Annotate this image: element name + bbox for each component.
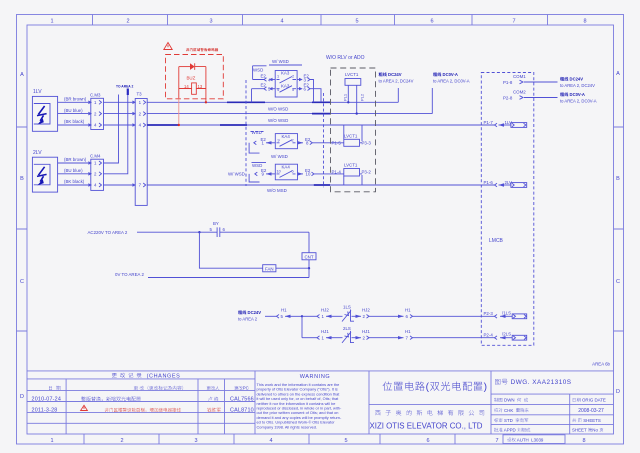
svg-text:KA4: KA4 xyxy=(282,165,291,170)
svg-text:W/ WSD: W/ WSD xyxy=(271,154,288,159)
option box W/WSD (blue dashed) xyxy=(246,80,324,187)
terminal E2-9 (KA4 lower left) xyxy=(228,163,275,183)
svg-text:P3-3: P3-3 xyxy=(362,141,372,146)
wire 1LV blue xyxy=(58,108,89,114)
terminal E2-4 (left, WSD bracket) xyxy=(253,66,276,83)
svg-text:1: 1 xyxy=(50,19,53,25)
terminal H1-7 xyxy=(398,329,495,341)
svg-text:6: 6 xyxy=(426,438,429,444)
transformer LVCT1 (middle) xyxy=(332,125,372,146)
svg-text:DWN: DWN xyxy=(503,398,517,403)
svg-text:HJ2: HJ2 xyxy=(321,308,329,313)
svg-text:BY: BY xyxy=(213,221,219,226)
zone letters right xyxy=(616,71,620,395)
zone letters left xyxy=(20,72,24,400)
svg-text:5: 5 xyxy=(344,438,347,444)
company name CN xyxy=(375,410,484,416)
relay contact KA3 (first) xyxy=(275,71,297,98)
wire 1LV brown xyxy=(58,97,89,103)
svg-text:1: 1 xyxy=(50,438,53,444)
svg-text:/1LS: /1LS xyxy=(502,310,511,315)
svg-text:7: 7 xyxy=(495,438,498,444)
svg-text:2008-03-27: 2008-03-27 xyxy=(578,408,604,414)
junction BUZ-line3 xyxy=(178,124,180,126)
label DC24V to AREA 2 (H1 row) xyxy=(238,310,261,322)
svg-text:COM1: COM1 xyxy=(513,74,526,79)
terminal H1-6 xyxy=(398,308,495,320)
relay contact KA4 (upper) xyxy=(275,134,297,149)
svg-text:2010-07-24: 2010-07-24 xyxy=(32,397,62,403)
unit LMCB (blue dashed box) xyxy=(481,73,534,346)
svg-text:9: 9 xyxy=(278,139,280,143)
svg-text:LVCT1: LVCT1 xyxy=(345,72,359,77)
svg-text:P2-4: P2-4 xyxy=(484,332,494,337)
wire C.M3 to T3 pin2 xyxy=(104,113,133,115)
label buzzer option (red) xyxy=(186,48,218,51)
terminal HJ2-2 xyxy=(356,308,399,320)
terminal block T3 xyxy=(132,92,147,206)
svg-text:4: 4 xyxy=(280,19,283,25)
switch 2LS (NC) xyxy=(341,326,356,343)
svg-text:(BK black): (BK black) xyxy=(64,119,85,124)
svg-text:SHEETS: SHEETS xyxy=(582,418,601,423)
wire BUZ left leg to line3 xyxy=(178,67,180,99)
svg-text:D: D xyxy=(616,389,620,395)
wire bus line3 xyxy=(147,124,494,126)
option box LVCT (gray dashed) xyxy=(331,68,376,192)
svg-text:PC: PC xyxy=(243,386,249,391)
connector C.M3 xyxy=(88,93,103,130)
svg-text:8: 8 xyxy=(582,438,585,444)
svg-text:P2-3: P2-3 xyxy=(484,311,494,316)
svg-text:2: 2 xyxy=(292,75,294,79)
svg-text:HJ1: HJ1 xyxy=(362,329,370,334)
svg-text:HJ1: HJ1 xyxy=(321,329,329,334)
svg-text:WSD: WSD xyxy=(252,130,262,135)
svg-text:FAN: FAN xyxy=(265,266,274,271)
terminal P2-4 /2LS xyxy=(484,332,527,340)
wire bus line1 xyxy=(147,101,398,103)
svg-text:2LS: 2LS xyxy=(343,326,351,331)
svg-text:0V TO AREA 2: 0V TO AREA 2 xyxy=(115,272,144,277)
label W/ WSD (KA3) xyxy=(269,59,302,65)
svg-text:(BR brown): (BR brown) xyxy=(64,97,87,102)
svg-text:C: C xyxy=(616,279,620,285)
svg-text:DC0V-A: DC0V-A xyxy=(441,72,458,77)
svg-text:2011-3-28: 2011-3-28 xyxy=(32,408,58,414)
wire 0V row xyxy=(115,272,309,278)
svg-text:2: 2 xyxy=(120,438,123,444)
svg-text:(BK black): (BK black) xyxy=(64,179,85,184)
wire 1LV black xyxy=(58,119,89,125)
svg-text:B: B xyxy=(20,176,24,182)
svg-text:): ) xyxy=(484,382,488,393)
svg-text:P1-8: P1-8 xyxy=(503,80,513,85)
svg-text:CAL8710: CAL8710 xyxy=(230,408,254,414)
wire C.M3 to T3 pin1 xyxy=(104,101,133,103)
svg-text:BUZ: BUZ xyxy=(187,76,196,81)
svg-text:WARNING: WARNING xyxy=(300,374,331,380)
capacitor BY circuit: label AC220V TO AREA 2 xyxy=(88,230,218,235)
svg-text:CHK: CHK xyxy=(503,408,516,413)
svg-text:to AREA 2, DC24V: to AREA 2, DC24V xyxy=(379,79,414,84)
svg-text:TO AREA 2: TO AREA 2 xyxy=(116,85,133,89)
svg-text:1: 1 xyxy=(277,75,279,79)
label to AREA 2 DC24V (line1) xyxy=(379,72,414,84)
svg-text:3: 3 xyxy=(209,19,212,25)
label to AREA 2 DC0V-A (line2) xyxy=(433,72,470,84)
svg-text:LVCT1: LVCT1 xyxy=(344,134,358,139)
diode D1 xyxy=(179,63,206,70)
wire 2LV blue xyxy=(58,168,89,174)
svg-text:DWG. XAA21310S: DWG. XAA21310S xyxy=(508,379,571,386)
wire bold segments (thick-wire marks) xyxy=(147,102,330,185)
terminal E2-8 (KA4 upper right) xyxy=(298,137,344,146)
terminal P2-3 /1LS xyxy=(484,310,527,318)
svg-text:(CHANGES: (CHANGES xyxy=(142,373,180,379)
sensor 2LV xyxy=(32,150,57,192)
svg-text:A: A xyxy=(616,71,620,77)
wire BUZ right leg to line1 xyxy=(205,67,207,103)
svg-text:KA3: KA3 xyxy=(281,71,290,76)
junction H1 row xyxy=(301,315,303,317)
label FAN xyxy=(263,265,276,272)
wire drop to row2 xyxy=(301,316,303,337)
svg-text:10: 10 xyxy=(306,172,311,177)
terminal E2-3 (right to line1) xyxy=(297,74,313,103)
relay contact KA4 (lower) xyxy=(275,164,297,180)
terminal HJ1-2 xyxy=(356,329,399,341)
svg-text:2: 2 xyxy=(292,139,294,143)
svg-text:1LS: 1LS xyxy=(343,305,351,310)
svg-text:No: No xyxy=(592,428,599,433)
svg-text:DC24V: DC24V xyxy=(387,72,402,77)
svg-text:AC220V TO AREA 2: AC220V TO AREA 2 xyxy=(88,230,128,235)
svg-text:H1: H1 xyxy=(405,308,411,313)
svg-text:to AREA 2: to AREA 2 xyxy=(238,317,258,322)
change row 2010-07-24 xyxy=(32,397,254,403)
changes table column titles xyxy=(49,386,249,391)
titleblock row DWN xyxy=(494,398,606,403)
terminal E2-5 (left to line1) xyxy=(252,83,276,103)
titleblock row APPD xyxy=(494,428,603,433)
svg-text:STD: STD xyxy=(503,418,515,423)
svg-text:AREA 6b: AREA 6b xyxy=(592,362,610,367)
svg-text:4: 4 xyxy=(269,438,272,444)
junction AC220V xyxy=(198,231,200,233)
terminal E2-6 (right to line1) xyxy=(297,83,321,103)
svg-text:WSD: WSD xyxy=(253,68,263,73)
svg-text:to AREA 2, DC0V-A: to AREA 2, DC0V-A xyxy=(560,99,597,104)
svg-text:H1: H1 xyxy=(281,308,287,313)
wire line2 up to DC0V label xyxy=(431,88,433,114)
warning triangle xyxy=(164,43,172,50)
svg-text:XIZI OTIS ELEVATOR CO., LTD: XIZI OTIS ELEVATOR CO., LTD xyxy=(370,422,483,431)
svg-text:A: A xyxy=(20,72,24,78)
svg-text:COM2: COM2 xyxy=(513,90,526,95)
wire C.M4 pin4 to T3 xyxy=(104,184,133,186)
svg-text:P1-7: P1-7 xyxy=(484,120,494,125)
svg-text:B: B xyxy=(616,176,620,182)
svg-text:5: 5 xyxy=(355,19,358,25)
titleblock row STD xyxy=(494,418,601,423)
connector C.M4 xyxy=(88,154,103,191)
wire bus line2 xyxy=(147,113,432,115)
svg-text:10: 10 xyxy=(277,169,281,173)
terminal P1-7 1LV xyxy=(484,120,527,128)
svg-text:C.M4: C.M4 xyxy=(90,154,101,159)
wire 2LV brown xyxy=(58,157,89,163)
svg-text:W/O RLV or ADO: W/O RLV or ADO xyxy=(326,55,365,61)
svg-text:2: 2 xyxy=(126,19,129,25)
wire C.M3 to T3 pin4 xyxy=(104,124,133,126)
svg-text:Company 1998. All rights rese: Company 1998. All rights reserved. xyxy=(257,424,318,429)
svg-text:W/ WSD: W/ WSD xyxy=(272,59,289,64)
svg-text:PL1: PL1 xyxy=(343,93,348,101)
switch 1LS (NC) xyxy=(341,305,356,322)
svg-text:DC0V-A: DC0V-A xyxy=(568,92,585,97)
wire line1 up to DC24V label xyxy=(397,88,399,102)
svg-text:6: 6 xyxy=(430,19,433,25)
zone numbers top xyxy=(50,19,586,25)
svg-text:P1-4: P1-4 xyxy=(332,170,342,175)
svg-text:E2: E2 xyxy=(261,74,267,79)
sensor 1LV xyxy=(32,89,57,131)
junction BUZ-line1 xyxy=(205,101,207,103)
label COM1 to AREA 2 DC24V xyxy=(560,77,595,89)
capacitor BY xyxy=(210,221,310,237)
wire C.M4 pin1 up xyxy=(104,95,119,164)
svg-text:LVCT1: LVCT1 xyxy=(344,163,358,168)
warning block xyxy=(257,374,342,429)
svg-text:to AREA 2, DC0V-A: to AREA 2, DC0V-A xyxy=(433,79,470,84)
svg-text:T3: T3 xyxy=(137,92,143,97)
terminal P2-8 COM2 xyxy=(503,90,558,101)
svg-text:KA4: KA4 xyxy=(282,134,291,139)
svg-text:PL2: PL2 xyxy=(360,93,365,101)
title block grid xyxy=(27,371,614,434)
svg-text:CNT: CNT xyxy=(305,254,314,259)
svg-text:DC24V: DC24V xyxy=(568,77,583,82)
transformer LVCT1 (bottom) xyxy=(332,163,372,186)
svg-text:3: 3 xyxy=(194,438,197,444)
zone numbers bottom xyxy=(50,438,585,444)
wire FAN row xyxy=(199,232,309,268)
svg-text:(BR brown): (BR brown) xyxy=(64,157,87,162)
transformer LVCT1 (top) xyxy=(343,72,365,115)
svg-text:ORIG DATE: ORIG DATE xyxy=(581,398,606,403)
wire right drop CNT xyxy=(308,232,310,277)
terminal P1-6 2LV xyxy=(484,180,527,188)
svg-text:HJ2: HJ2 xyxy=(362,308,370,313)
svg-text:AUTH L3039: AUTH L3039 xyxy=(516,437,544,442)
svg-text:W/O WSD: W/O WSD xyxy=(268,118,288,123)
svg-text:1LV: 1LV xyxy=(33,89,42,95)
terminal E2-1 (KA4 upper left) xyxy=(249,130,275,153)
label CNT xyxy=(302,253,316,260)
warning triangle (change row) xyxy=(81,405,88,410)
titleblock row CHK xyxy=(494,408,604,414)
svg-text:/2LS: /2LS xyxy=(502,332,511,337)
wire 2LV black xyxy=(58,179,89,185)
svg-text:7: 7 xyxy=(512,19,515,25)
svg-text:C.M3: C.M3 xyxy=(90,93,101,98)
svg-text:P1-5: P1-5 xyxy=(332,141,342,146)
svg-text:to AREA 2, DC24V: to AREA 2, DC24V xyxy=(560,83,595,88)
svg-text:P3-2: P3-2 xyxy=(362,170,372,175)
svg-text:H1: H1 xyxy=(405,329,411,334)
svg-text:(BU blue): (BU blue) xyxy=(64,168,83,173)
label COM2 to AREA 2 DC0V-A xyxy=(560,92,597,104)
svg-text:P2-8: P2-8 xyxy=(503,96,513,101)
svg-text:P1-6: P1-6 xyxy=(484,180,494,185)
wire C.M4 pin2 up xyxy=(104,95,128,174)
svg-text:(BU blue): (BU blue) xyxy=(64,108,83,113)
svg-text:W/O WSD: W/O WSD xyxy=(268,107,288,112)
option box BUZ (red dashed) xyxy=(166,55,224,99)
svg-text:DC24V: DC24V xyxy=(246,310,261,315)
svg-text:CAL7566: CAL7566 xyxy=(230,397,254,403)
wire bus line4 xyxy=(147,184,494,186)
node TO AREA 2 xyxy=(116,85,133,96)
terminal HJ1-1 xyxy=(302,329,341,341)
terminal HJ2-1 xyxy=(302,308,341,320)
svg-text:C: C xyxy=(20,279,24,285)
svg-text:SHEET: SHEET xyxy=(572,428,588,433)
svg-text:(: ( xyxy=(426,382,430,393)
svg-text:LMCB: LMCB xyxy=(489,238,504,244)
svg-text:D: D xyxy=(20,394,24,400)
terminal E2-10 (KA4 lower right) xyxy=(298,168,344,177)
svg-text:APPD: APPD xyxy=(503,428,517,433)
terminal P1-8 COM1 xyxy=(503,74,558,85)
auth box xyxy=(503,435,565,444)
svg-text:E2: E2 xyxy=(261,83,267,88)
change row 2011-3-28 (red) xyxy=(32,408,254,414)
svg-text:2LV: 2LV xyxy=(33,150,42,156)
svg-text:W/ WSD: W/ WSD xyxy=(228,172,245,177)
svg-text:W/O MSD: W/O MSD xyxy=(267,188,287,193)
junction FAN node xyxy=(308,267,310,269)
terminal H1-5 xyxy=(265,308,302,320)
svg-text:8: 8 xyxy=(583,19,586,25)
buzzer BUZ xyxy=(179,76,206,95)
